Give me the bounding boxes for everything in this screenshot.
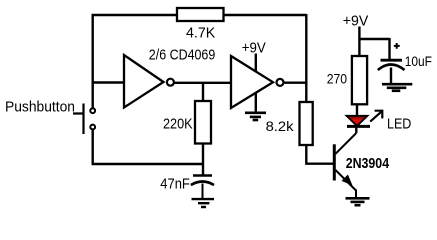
inverter U1B (CD4069 gate) — [231, 40, 284, 108]
inverter U1A (CD4069 gate) — [124, 47, 215, 108]
wire inverter U1A output to inverter U1B input — [175, 82, 232, 84]
svg-text:Pushbutton: Pushbutton — [5, 99, 75, 116]
svg-text:+9V: +9V — [343, 13, 369, 30]
ground under inverter U1B power pin — [245, 113, 266, 120]
svg-text:220K: 220K — [163, 116, 193, 133]
ground under transistor Q1 emitter — [346, 198, 370, 205]
wire resistor 8.2k bottom to transistor base — [305, 145, 333, 164]
wire resistor 270 bottom to LED anode — [356, 104, 358, 117]
resistor 8.2k — [266, 102, 313, 145]
transistor Q1 2N3904 — [334, 133, 389, 197]
wire top feedback from node A to node B — [92, 14, 307, 16]
svg-text:270: 270 — [327, 71, 348, 87]
svg-text:8.2k: 8.2k — [266, 118, 295, 134]
capacitor 10uF polarized — [378, 43, 432, 83]
svg-text:2/6 CD4069: 2/6 CD4069 — [149, 47, 216, 64]
wire inverter U1B ground pin stub — [255, 92, 257, 112]
resistor 220K — [163, 101, 211, 144]
wire resistor 220K bottom through node C to capacitor 47nF — [202, 144, 204, 176]
pushbutton S1 — [5, 99, 95, 135]
wire node D down to resistor 220K top — [202, 83, 204, 102]
wire +9V supply down to resistor 270 — [358, 27, 360, 57]
wire input to inverter U1A — [92, 81, 125, 83]
LED D1 — [347, 110, 412, 133]
capacitor 47nF — [160, 175, 214, 198]
wire LED cathode to transistor collector — [355, 126, 357, 133]
wire branch to capacitor 10uF — [358, 38, 389, 59]
svg-text:+9V: +9V — [242, 40, 266, 57]
svg-text:2N3904: 2N3904 — [346, 155, 390, 172]
wire left vertical from top wire to pushbutton top contact — [91, 14, 93, 108]
wire right vertical node B down to resistor 8.2k — [305, 14, 307, 103]
wire +9V stub to inverter U1B power pin — [255, 54, 257, 73]
svg-text:10uF: 10uF — [405, 53, 432, 69]
svg-text:4.7K: 4.7K — [186, 25, 215, 42]
resistor 270 — [327, 56, 367, 104]
svg-text:47nF: 47nF — [160, 175, 190, 192]
svg-text:LED: LED — [387, 116, 411, 133]
ground under capacitor 47nF — [192, 199, 215, 207]
resistor 4.7K — [177, 8, 224, 42]
wire inverter U1B output to node B — [284, 81, 306, 83]
ground under capacitor 10uF — [382, 84, 412, 91]
wire pushbutton bottom contact down and right to node C — [92, 129, 204, 164]
